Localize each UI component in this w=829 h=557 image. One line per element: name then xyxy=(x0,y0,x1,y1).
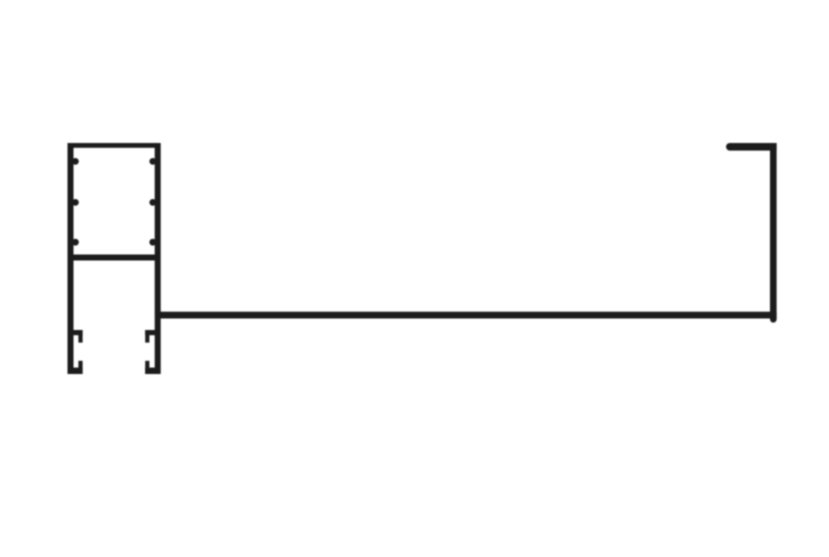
left foot upper hook vertical xyxy=(78,330,82,343)
nub right wall 3 xyxy=(149,239,156,246)
right glazing bead: top stub rounded cap xyxy=(726,143,734,151)
right glazing bead: vertical bar xyxy=(770,143,777,320)
nub left wall 2 xyxy=(72,199,79,206)
nub left wall 3 xyxy=(72,239,79,246)
right foot upper hook horizontal xyxy=(145,330,155,335)
right foot upper hook vertical xyxy=(145,330,149,343)
nub right wall 2 xyxy=(149,199,156,206)
right foot bottom bar xyxy=(145,368,160,374)
left foot bottom stub xyxy=(78,361,82,374)
left mullion profile: right wall xyxy=(155,143,161,374)
nub right wall 1 xyxy=(149,158,156,165)
left mullion profile: divider xyxy=(68,255,161,261)
nub left wall 1 xyxy=(72,158,79,165)
left mullion profile: left wall xyxy=(68,143,74,374)
right foot bottom stub xyxy=(145,361,149,374)
left foot upper hook horizontal xyxy=(73,330,83,335)
left mullion profile: top edge xyxy=(68,143,161,148)
right glazing bead: top stub xyxy=(730,143,777,151)
long horizontal rail xyxy=(157,312,777,319)
right glazing bead: rounded bottom tip xyxy=(770,316,777,323)
left foot bottom bar xyxy=(68,368,83,374)
